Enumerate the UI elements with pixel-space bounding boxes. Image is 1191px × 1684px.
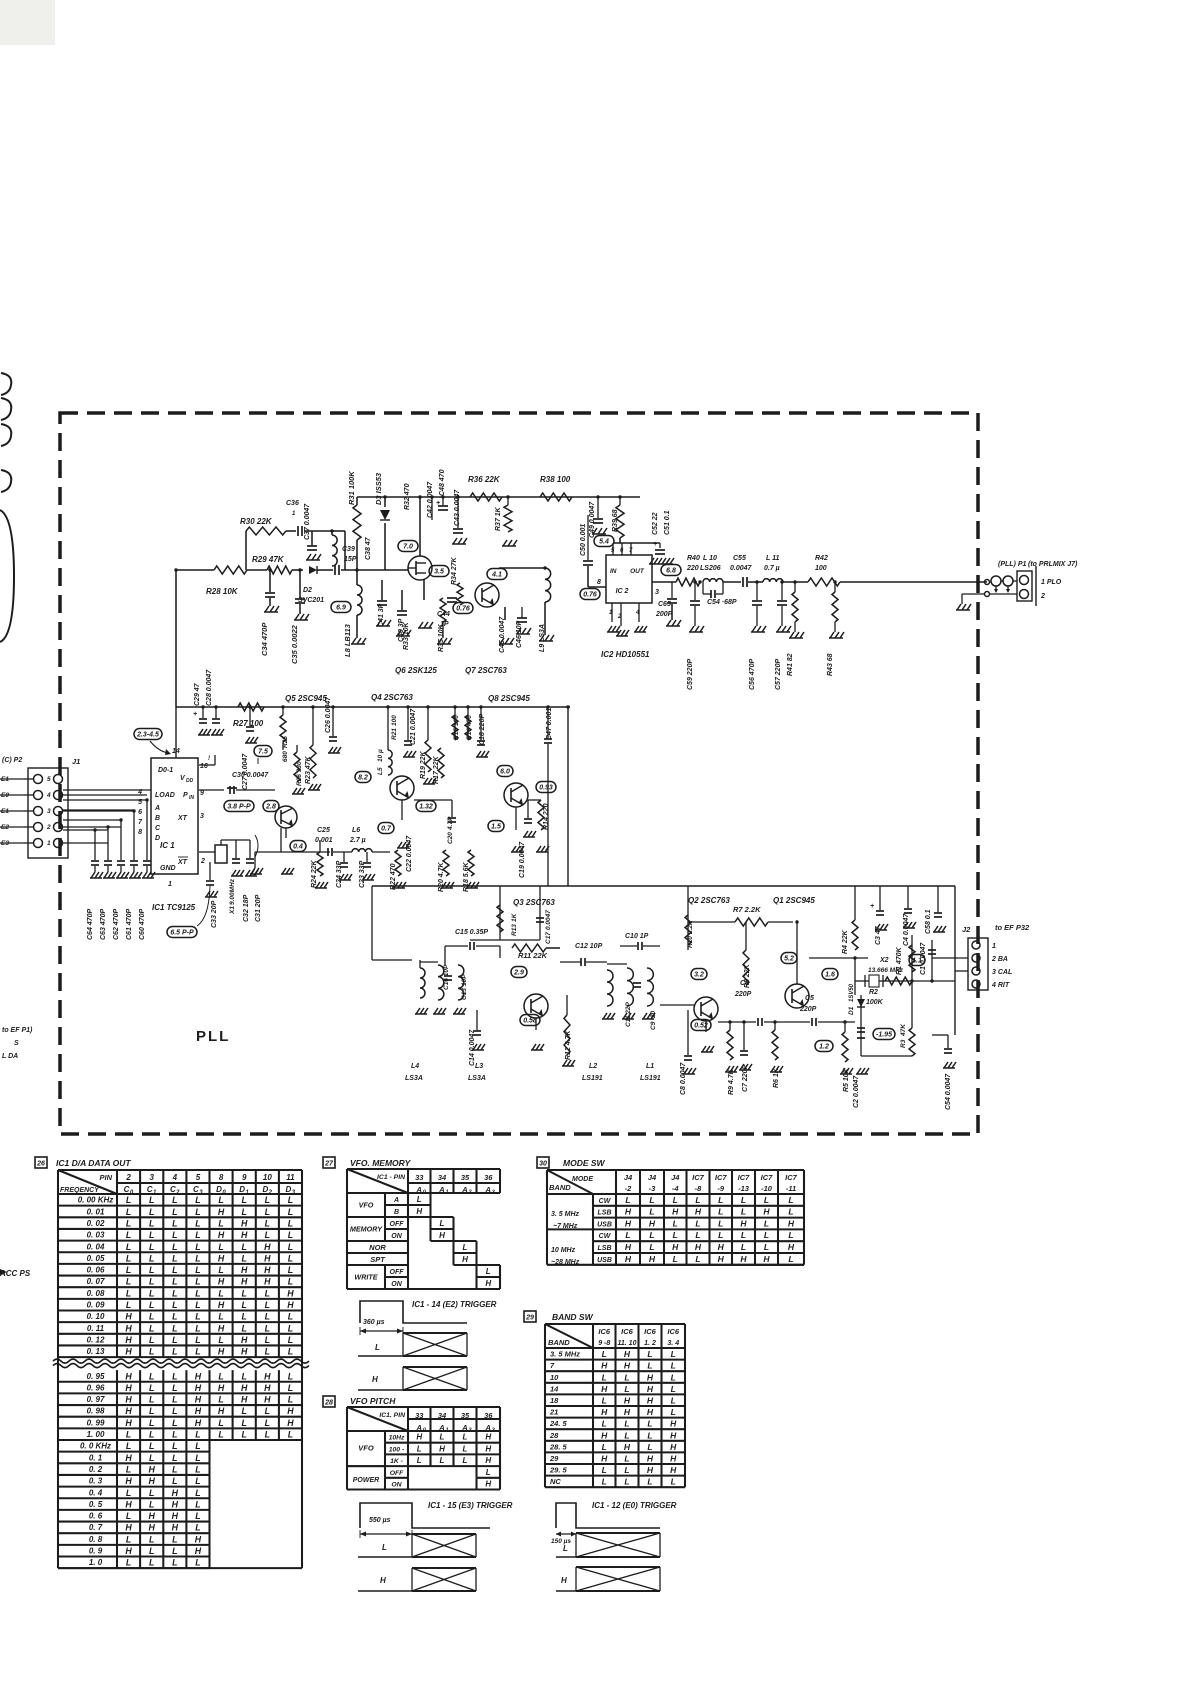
svg-text:C6: C6 [740,980,749,987]
svg-text:L: L [288,1265,293,1275]
svg-text:H: H [241,1395,248,1405]
svg-text:B: B [394,1209,399,1216]
svg-text:L: L [788,1195,793,1205]
svg-text:7.5: 7.5 [258,749,268,756]
svg-text:H: H [740,1218,747,1228]
svg-text:L: L [242,1371,247,1381]
svg-text:OFF: OFF [390,1470,404,1477]
svg-text:L: L [242,1242,247,1252]
svg-text:R41 82: R41 82 [787,653,794,676]
svg-text:L: L [126,1207,131,1217]
svg-text:LS3A: LS3A [468,1075,486,1082]
svg-text:H: H [625,1218,632,1228]
svg-text:L: L [195,1218,200,1228]
svg-text:3. 5 MHz: 3. 5 MHz [550,1350,580,1359]
svg-text:-9: -9 [717,1184,724,1193]
svg-text:200P: 200P [655,611,673,618]
svg-text:L6: L6 [352,827,360,834]
svg-text:Q1 2SC945: Q1 2SC945 [773,896,815,905]
svg-text:L: L [647,1430,652,1440]
svg-text:L: L [764,1195,769,1205]
svg-text:L: L [288,1230,293,1240]
svg-text:H: H [439,1444,445,1453]
svg-text:L: L [741,1195,746,1205]
svg-text:L: L [172,1534,177,1544]
svg-text:LSB: LSB [598,1245,612,1252]
svg-text:L: L [718,1195,723,1205]
svg-text:H: H [416,1433,422,1442]
svg-text:L: L [126,1300,131,1310]
svg-text:0. 02: 0. 02 [87,1219,105,1228]
svg-text:C54 ·68P: C54 ·68P [707,599,737,606]
svg-text:IC7: IC7 [738,1173,751,1182]
svg-text:1SV50: 1SV50 [849,983,855,1002]
svg-text:R33 10K: R33 10K [403,621,410,650]
svg-text:2: 2 [1040,593,1045,600]
svg-text:L: L [172,1371,177,1381]
svg-text:H: H [649,1218,656,1228]
svg-text:L: L [149,1195,154,1205]
svg-text:H: H [647,1407,654,1417]
svg-text:L: L [126,1218,131,1228]
svg-text:L: L [265,1195,270,1205]
svg-text:L: L [242,1323,247,1333]
svg-text:H: H [264,1383,271,1393]
svg-text:H: H [561,1576,567,1585]
svg-text:0. 5: 0. 5 [89,1500,103,1509]
svg-text:C31 20P: C31 20P [255,894,262,922]
svg-text:10Hz: 10Hz [389,1435,405,1442]
svg-text:~7 MHz: ~7 MHz [553,1223,578,1230]
svg-text:L: L [172,1441,177,1451]
svg-text:100: 100 [391,715,398,726]
svg-text:R9 4.7K: R9 4.7K [728,1068,735,1095]
svg-text:ON: ON [391,1281,402,1288]
svg-text:L: L [172,1253,177,1263]
svg-text:L: L [126,1265,131,1275]
svg-text:Q7 2SC763: Q7 2SC763 [465,666,507,675]
svg-text:L: L [288,1195,293,1205]
svg-text:L: L [195,1523,200,1533]
svg-text:H: H [264,1265,271,1275]
svg-text:4: 4 [46,792,51,799]
svg-text:R32 470: R32 470 [404,483,411,510]
svg-text:L: L [463,1433,468,1442]
svg-text:L: L [172,1476,177,1486]
svg-text:L: L [671,1372,676,1382]
svg-text:H: H [264,1277,271,1287]
svg-text:L: L [172,1430,177,1440]
svg-text:L5: L5 [377,767,384,775]
svg-text:H: H [624,1407,631,1417]
svg-text:L: L [195,1312,200,1322]
svg-text:30: 30 [539,1161,547,1168]
svg-text:L: L [126,1253,131,1263]
svg-text:28: 28 [549,1431,559,1440]
svg-text:L: L [649,1195,654,1205]
svg-text:(to PRLMIX J7): (to PRLMIX J7) [1028,561,1078,568]
svg-text:H: H [241,1335,248,1345]
svg-text:0. 98: 0. 98 [87,1407,105,1416]
svg-text:0. 08: 0. 08 [87,1289,105,1298]
svg-text:L: L [195,1230,200,1240]
svg-text:H: H [125,1335,132,1345]
svg-text:21: 21 [549,1408,558,1417]
svg-text:IC1 TC9125: IC1 TC9125 [152,903,196,912]
svg-text:L: L [563,1544,568,1553]
svg-text:H: H [241,1383,248,1393]
svg-text:IC7: IC7 [692,1173,705,1182]
svg-text:BAND: BAND [549,1183,571,1192]
svg-text:+: + [436,500,440,507]
svg-text:C8 0.0047: C8 0.0047 [680,1062,687,1095]
svg-text:L: L [218,1395,223,1405]
svg-text:R28 10K: R28 10K [206,587,239,596]
svg-text:LS206: LS206 [700,565,721,572]
svg-text:10: 10 [263,1173,272,1182]
svg-text:L2: L2 [589,1063,597,1070]
svg-text:L: L [265,1288,270,1298]
svg-text:C10 1P: C10 1P [625,933,649,940]
svg-text:D3 ISS53: D3 ISS53 [374,472,383,505]
svg-text:MODE SW: MODE SW [563,1158,606,1168]
svg-text:R30 22K: R30 22K [240,517,273,526]
svg-text:L: L [695,1218,700,1228]
svg-text:H: H [462,1255,468,1264]
svg-text:3.8 P-P: 3.8 P-P [227,804,251,811]
svg-text:H: H [485,1456,491,1465]
svg-text:BAND: BAND [548,1338,570,1347]
svg-text:1. 0: 1. 0 [89,1558,103,1567]
svg-text:CW: CW [599,1233,612,1240]
svg-text:9: 9 [200,790,204,797]
svg-text:L: L [149,1383,154,1393]
svg-text:L: L [625,1230,630,1240]
svg-text:0. 9: 0. 9 [89,1547,103,1556]
svg-text:3: 3 [200,813,204,820]
svg-text:470: 470 [466,715,473,727]
svg-text:1 PLO: 1 PLO [1041,579,1062,586]
svg-text:C51 0.1: C51 0.1 [664,510,671,535]
svg-text:C: C [147,1185,153,1194]
svg-text:0. 2: 0. 2 [89,1465,103,1474]
svg-text:2: 2 [617,614,622,620]
svg-text:L: L [126,1534,131,1544]
svg-text:H: H [218,1300,225,1310]
svg-text:C16 10P: C16 10P [443,964,450,990]
svg-text:L: L [172,1300,177,1310]
svg-text:100: 100 [815,565,827,572]
svg-text:0. 6: 0. 6 [89,1512,103,1521]
svg-text:L: L [647,1477,652,1487]
svg-text:LSB: LSB [598,1210,612,1217]
svg-text:Q5 2SC945: Q5 2SC945 [285,694,327,703]
svg-text:L: L [172,1347,177,1357]
svg-text:L: L [382,1543,387,1552]
svg-text:D: D [216,1185,222,1194]
svg-text:1.5: 1.5 [491,824,501,831]
svg-text:L: L [126,1242,131,1252]
svg-text:(PLL) P1: (PLL) P1 [998,561,1026,568]
svg-text:L: L [288,1395,293,1405]
svg-text:C59 220P: C59 220P [687,659,694,690]
svg-text:L: L [624,1372,629,1382]
svg-text:L: L [288,1383,293,1393]
svg-text:H: H [718,1242,725,1252]
svg-text:L: L [195,1277,200,1287]
svg-text:3: 3 [655,589,659,596]
svg-text:L: L [149,1453,154,1463]
svg-text:33: 33 [415,1173,424,1182]
svg-text:36: 36 [484,1173,493,1182]
svg-text:C37 0.0047: C37 0.0047 [304,503,311,540]
svg-text:H: H [195,1546,202,1556]
svg-text:C44: C44 [437,611,450,618]
svg-text:550 µs: 550 µs [369,1517,391,1524]
svg-text:H: H [172,1523,179,1533]
svg-text:VFO PITCH: VFO PITCH [350,1396,396,1406]
svg-text:L: L [149,1488,154,1498]
svg-text:H: H [264,1253,271,1263]
svg-text:L: L [149,1253,154,1263]
svg-text:R3: R3 [900,1039,907,1048]
svg-text:C35 0.0022: C35 0.0022 [290,624,299,664]
svg-text:IC6: IC6 [644,1327,657,1336]
svg-text:LOAD: LOAD [155,792,175,799]
svg-text:9: 9 [242,1173,247,1182]
svg-text:H: H [647,1454,654,1464]
svg-text:D: D [286,1185,292,1194]
svg-text:0.76: 0.76 [456,606,470,613]
svg-text:L: L [242,1195,247,1205]
svg-text:1: 1 [992,943,996,950]
svg-text:L: L [149,1323,154,1333]
svg-text:L: L [195,1441,200,1451]
svg-text:C65: C65 [658,601,671,608]
svg-text:IC6: IC6 [621,1327,634,1336]
svg-text:0. 03: 0. 03 [87,1231,105,1240]
svg-text:L: L [788,1207,793,1217]
svg-text:1. 2: 1. 2 [644,1340,656,1347]
svg-text:DD: DD [186,778,194,784]
svg-text:0.0047: 0.0047 [730,565,753,572]
svg-text:L: L [288,1335,293,1345]
svg-text:C55: C55 [733,555,746,562]
svg-text:L: L [647,1349,652,1359]
svg-text:GND: GND [160,865,176,872]
svg-text:L: L [149,1265,154,1275]
svg-text:0. 8: 0. 8 [89,1535,103,1544]
svg-text:6: 6 [620,548,624,554]
svg-text:C22 0.0047: C22 0.0047 [406,835,413,872]
svg-text:OFF: OFF [390,1221,405,1228]
svg-text:L: L [647,1442,652,1452]
svg-text:L: L [195,1430,200,1440]
svg-text:OFF: OFF [390,1269,405,1276]
svg-text:L: L [647,1361,652,1371]
svg-text:0. 4: 0. 4 [89,1488,103,1497]
svg-text:100K: 100K [866,999,884,1006]
svg-text:L: L [126,1511,131,1521]
svg-text:P: P [183,792,188,799]
svg-text:L: L [218,1312,223,1322]
svg-text:H: H [125,1476,132,1486]
svg-text:to EF P32: to EF P32 [995,923,1030,932]
svg-text:20: 20 [650,1010,657,1019]
svg-text:H: H [218,1323,225,1333]
svg-text:L: L [265,1300,270,1310]
svg-text:FREQENCY: FREQENCY [60,1187,100,1194]
svg-text:C64 470P: C64 470P [87,909,94,940]
svg-text:6.5 P-P: 6.5 P-P [170,930,194,937]
svg-text:5: 5 [47,776,51,783]
svg-text:H: H [125,1347,132,1357]
svg-text:L: L [195,1464,200,1474]
svg-text:IC1 - 14 (E2) TRIGGER: IC1 - 14 (E2) TRIGGER [412,1300,497,1309]
svg-text:H: H [670,1442,677,1452]
svg-text:CW: CW [599,1198,612,1205]
svg-text:6.0: 6.0 [500,769,510,776]
svg-text:8: 8 [219,1173,224,1182]
svg-text:1: 1 [292,511,296,517]
svg-text:H: H [264,1371,271,1381]
svg-text:L: L [172,1242,177,1252]
svg-text:H: H [763,1207,770,1217]
svg-text:Q2 2SC763: Q2 2SC763 [688,896,730,905]
svg-text:NC: NC [550,1477,561,1486]
svg-text:0. 3: 0. 3 [89,1477,103,1486]
svg-text:H: H [195,1406,202,1416]
svg-text:L: L [265,1430,270,1440]
svg-text:220: 220 [686,565,699,572]
svg-text:R15: R15 [453,728,460,740]
svg-text:7: 7 [550,1361,555,1370]
svg-text:L: L [242,1312,247,1322]
svg-text:L: L [126,1430,131,1440]
svg-text:7: 7 [629,548,633,554]
svg-text:0.76: 0.76 [583,592,597,599]
svg-text:L: L [625,1195,630,1205]
svg-text:0.58: 0.58 [523,1018,537,1025]
svg-text:L: L [624,1465,629,1475]
svg-text:ON: ON [391,1233,402,1240]
svg-text:R38 100: R38 100 [540,475,571,484]
svg-text:24. 5: 24. 5 [549,1419,568,1428]
svg-text:L: L [265,1207,270,1217]
svg-text:2 BA: 2 BA [991,956,1008,963]
svg-text:L: L [288,1207,293,1217]
svg-text:LS191: LS191 [640,1075,661,1082]
svg-text:Q4 2SC763: Q4 2SC763 [371,693,413,702]
svg-text:L: L [624,1384,629,1394]
svg-text:H: H [125,1383,132,1393]
svg-text:H: H [218,1277,225,1287]
svg-text:H: H [485,1279,491,1288]
svg-text:L: L [440,1433,445,1442]
svg-text:WRITE: WRITE [354,1273,377,1282]
svg-text:L: L [649,1242,654,1252]
svg-text:VFO: VFO [358,1444,374,1453]
svg-text:H: H [241,1347,248,1357]
svg-text:11: 11 [286,1173,295,1182]
svg-text:H: H [695,1207,702,1217]
svg-text:L: L [288,1323,293,1333]
svg-text:L: L [417,1456,422,1465]
svg-text:D: D [262,1185,268,1194]
svg-text:A: A [393,1197,399,1204]
svg-text:C58 0.1: C58 0.1 [925,909,932,934]
svg-text:L: L [149,1218,154,1228]
svg-text:L: L [265,1335,270,1345]
svg-text:X2: X2 [879,957,889,964]
svg-text:27: 27 [324,1161,334,1168]
svg-text:11. 10: 11. 10 [618,1340,637,1347]
svg-text:L: L [602,1477,607,1487]
svg-text:-13: -13 [738,1184,750,1193]
svg-text:H: H [624,1396,631,1406]
svg-text:H: H [625,1254,632,1264]
svg-text:D: D [239,1185,245,1194]
svg-text:C30 0.0047: C30 0.0047 [232,772,269,779]
svg-text:R39 68: R39 68 [612,509,619,532]
svg-text:H: H [718,1254,725,1264]
svg-text:L: L [718,1230,723,1240]
svg-text:L: L [195,1253,200,1263]
svg-text:L: L [218,1371,223,1381]
svg-text:L: L [463,1456,468,1465]
svg-text:0. 0 KHz: 0. 0 KHz [80,1442,111,1451]
svg-text:L: L [671,1407,676,1417]
svg-text:C45 0.0047: C45 0.0047 [499,616,506,653]
svg-text:28. 5: 28. 5 [549,1442,568,1451]
svg-text:R5 10K: R5 10K [843,1067,850,1092]
svg-text:L: L [602,1372,607,1382]
svg-text:H: H [125,1418,132,1428]
svg-text:C36: C36 [286,500,299,507]
svg-text:L4: L4 [411,1063,419,1070]
svg-text:L: L [149,1230,154,1240]
svg-text:R26 330: R26 330 [296,761,303,786]
svg-text:L: L [126,1195,131,1205]
svg-text:0. 12: 0. 12 [87,1335,105,1344]
svg-text:R37 1K: R37 1K [495,506,502,531]
svg-text:L: L [486,1267,491,1276]
svg-text:L DA: L DA [2,1053,18,1060]
svg-text:L: L [288,1277,293,1287]
svg-text:1.2: 1.2 [819,1044,829,1051]
svg-text:H: H [172,1499,179,1509]
svg-text:H: H [218,1347,225,1357]
svg-text:L: L [172,1546,177,1556]
svg-text:L: L [218,1265,223,1275]
svg-text:R23 47K: R23 47K [305,755,312,784]
svg-text:-8: -8 [695,1184,702,1193]
svg-text:1: 1 [168,881,172,888]
svg-text:L: L [149,1441,154,1451]
svg-text:L: L [288,1430,293,1440]
svg-text:L: L [463,1243,468,1252]
svg-text:H: H [218,1383,225,1393]
svg-text:L: L [172,1418,177,1428]
svg-text:USB: USB [597,1257,612,1264]
svg-text:L: L [149,1418,154,1428]
svg-text:0. 00 KHz: 0. 00 KHz [78,1196,114,1205]
svg-text:L: L [149,1300,154,1310]
svg-text:0. 01: 0. 01 [87,1207,105,1216]
svg-text:L: L [172,1453,177,1463]
svg-text:L: L [172,1406,177,1416]
svg-text:L: L [624,1454,629,1464]
